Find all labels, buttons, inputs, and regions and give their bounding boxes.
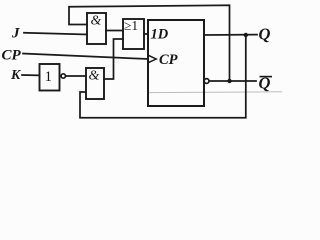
svg-text:Q: Q [259,25,271,44]
svg-text:&: & [89,69,100,84]
wire J input [24,33,87,35]
svg-text:1D: 1D [151,27,169,43]
wire G1 output to OR [106,30,123,32]
svg-text:&: & [91,14,102,29]
and-gate G1 box [87,13,106,44]
flip-flop Qbar bubble [204,79,209,84]
wire Qbar output [209,80,256,82]
svg-text:CP: CP [2,48,22,64]
wire G4 output to 1D [144,33,148,35]
flip-flop FF box [148,20,204,106]
junction dot on Qbar [227,79,231,83]
wire Kbar [66,75,87,77]
wire Q output [204,34,257,36]
junction dot on Q [244,33,248,37]
or-gate G4 box [123,19,144,49]
svg-text:≥1: ≥1 [124,18,138,33]
inverter G3 box [40,64,60,91]
wire Qbar feedback (top) [69,5,230,81]
overbar of Qbar [260,76,273,78]
wire CP input [23,54,148,60]
wire Q feedback (bottom) [80,35,246,118]
svg-text:1: 1 [45,69,53,85]
svg-text:CP: CP [159,52,178,68]
svg-text:J: J [11,26,20,42]
wire G2 output to OR [104,39,123,79]
wire K input [22,74,40,76]
svg-text:K: K [10,68,22,83]
scan artifact line [148,91,282,94]
and-gate G2 box [86,68,104,99]
inverter G3 output bubble [61,74,65,78]
flip-flop clock edge triangle [149,56,156,63]
